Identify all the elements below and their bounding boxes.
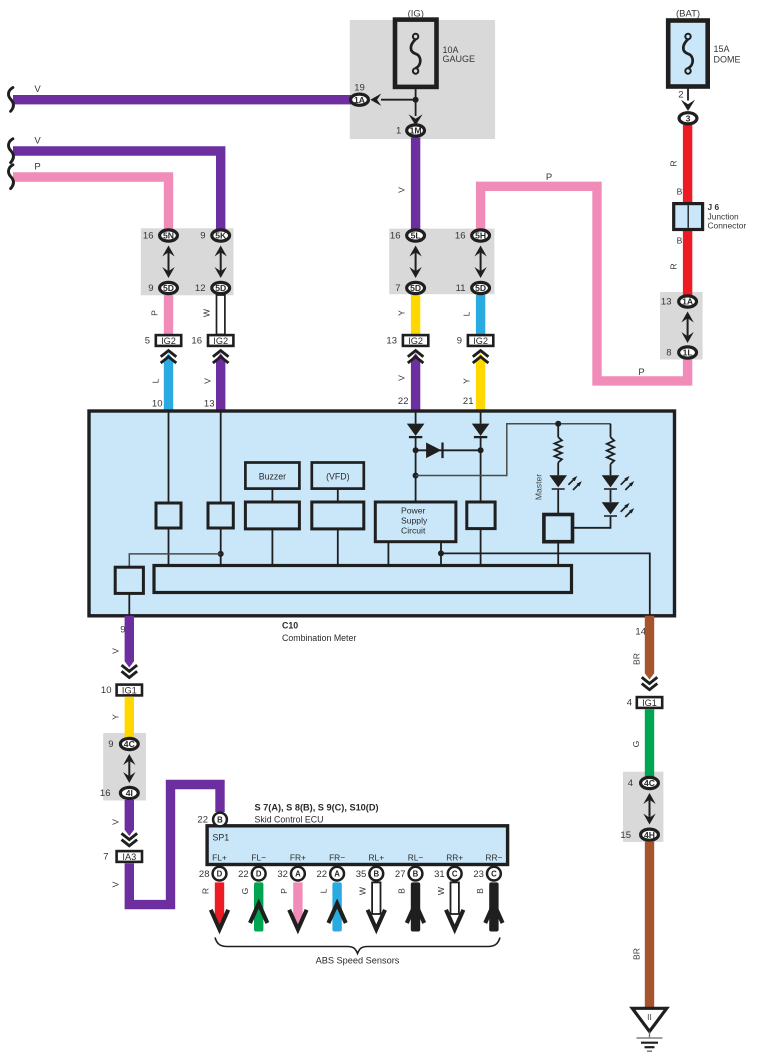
wire B ABS sensor RL− [411, 882, 420, 931]
node junction pin 22 line lower [413, 473, 419, 479]
svg-text:P: P [546, 172, 552, 183]
svg-text:7: 7 [395, 283, 400, 294]
svg-text:C: C [491, 870, 497, 879]
svg-text:22: 22 [398, 396, 409, 407]
connector block 5L/5H to 5D shading [389, 229, 494, 295]
svg-text:A: A [295, 870, 301, 879]
wire resistor to LED left [557, 463, 559, 476]
svg-text:Combination Meter: Combination Meter [282, 633, 356, 643]
connector 4I [120, 787, 138, 798]
arrow chevrons into IG2 pin 13 [408, 351, 424, 357]
ECU SP1 skid control box [207, 826, 508, 865]
svg-text:11: 11 [456, 283, 466, 294]
connector 5H [472, 230, 490, 241]
wire meter pin 21 internal [480, 412, 482, 424]
wire P ABS sensor FR+ [293, 882, 302, 919]
svg-text:35: 35 [356, 869, 367, 880]
svg-text:5: 5 [145, 336, 150, 347]
svg-text:FR+: FR+ [290, 852, 306, 862]
svg-text:W: W [436, 886, 446, 895]
svg-text:Y: Y [397, 310, 407, 316]
svg-text:4H: 4H [644, 830, 655, 840]
wire meter pin 10 internal [168, 412, 170, 503]
svg-text:7: 7 [103, 852, 108, 863]
svg-text:B: B [373, 870, 379, 879]
svg-text:Connector: Connector [708, 221, 747, 231]
svg-text:16: 16 [100, 788, 111, 799]
node junction box13 line [218, 551, 224, 557]
svg-text:IG2: IG2 [161, 336, 176, 346]
wire P connector 5H to 1L [481, 186, 688, 381]
junction connector J6 [674, 204, 703, 230]
node junction PSC output [438, 550, 444, 556]
svg-text:5D: 5D [410, 283, 421, 293]
connector 1A (IG feed) [351, 94, 369, 105]
junction IG1 pin 10 [117, 685, 142, 696]
VFD box [312, 463, 364, 489]
junction IG2 pin 13 [403, 335, 428, 346]
svg-text:R: R [201, 888, 211, 894]
diode meter pin 21 [472, 424, 490, 436]
svg-text:27: 27 [395, 869, 406, 880]
connector block 1A to 1L shading [660, 292, 703, 360]
svg-text:4: 4 [627, 698, 632, 709]
svg-text:SP1: SP1 [213, 833, 230, 843]
svg-text:GAUGE: GAUGE [443, 54, 476, 64]
svg-text:5H: 5H [475, 231, 486, 241]
svg-text:10: 10 [152, 399, 163, 410]
wire L IG2 pin 5 to meter pin 10 [164, 353, 173, 412]
svg-text:G: G [631, 740, 641, 747]
wire W 5D to IG2 pin 16 [217, 295, 225, 335]
node A pin 22 [330, 867, 344, 881]
svg-text:15: 15 [620, 830, 631, 841]
svg-text:V: V [111, 881, 121, 887]
arrow pair 5K to 5D [220, 252, 222, 273]
resistor right (indicator LEDs) [607, 437, 614, 464]
wire P 5D to IG2 pin 5 [164, 295, 173, 335]
svg-text:9: 9 [457, 336, 462, 347]
wire fuse DOME output [687, 87, 689, 101]
svg-text:28: 28 [199, 869, 210, 880]
svg-text:5L: 5L [411, 231, 421, 241]
junction IG2 pin 9 [468, 335, 493, 346]
internal box under pin 10 [156, 503, 181, 528]
svg-text:16: 16 [191, 336, 202, 347]
svg-text:BR: BR [632, 653, 642, 665]
wire cross link to output box [129, 554, 220, 567]
node junction pin 22 line upper [413, 447, 419, 453]
arrow chevrons into IG2 pin 5 [161, 351, 177, 357]
wire fuse output [415, 87, 417, 116]
connector block 5N/5K to 5D shading [141, 228, 234, 295]
wire V horizontal to connector 1A [13, 95, 351, 104]
node B pin 35 [369, 867, 383, 881]
svg-text:12: 12 [195, 283, 206, 294]
svg-text:9: 9 [108, 739, 113, 750]
node B pin 27 [409, 867, 423, 881]
wire LED to Master box [557, 490, 559, 515]
svg-text:RR−: RR− [485, 852, 502, 862]
wire junction to LED resistor rail [416, 424, 611, 476]
svg-text:(IG): (IG) [408, 9, 424, 20]
fuse 10A GAUGE [395, 20, 437, 87]
svg-text:5D: 5D [163, 283, 174, 293]
svg-text:P: P [279, 888, 289, 894]
svg-text:BR: BR [632, 948, 642, 960]
wire V meter pin 9 to IG1 [125, 616, 134, 668]
node junction resistor rail [555, 421, 561, 427]
wire V IG2 pin 16 to meter pin 13 [216, 353, 225, 412]
node C pin 31 [448, 867, 462, 881]
svg-text:23: 23 [473, 869, 484, 880]
svg-text:31: 31 [434, 869, 445, 880]
svg-text:B: B [475, 888, 485, 894]
wire W ABS sensor RR+ [451, 882, 459, 914]
power supply circuit box [375, 502, 456, 542]
wire rail to left resistor [557, 424, 559, 438]
node C pin 23 [487, 867, 501, 881]
svg-text:16: 16 [143, 231, 154, 242]
wire meter pin 22 internal [415, 412, 417, 424]
svg-text:D: D [217, 870, 223, 879]
svg-text:13: 13 [204, 399, 215, 410]
arrow pair 5H to 5D [480, 252, 482, 273]
wire W ABS sensor RL+ [372, 882, 380, 914]
svg-text:IG1: IG1 [642, 698, 657, 708]
svg-text:Supply: Supply [401, 516, 428, 526]
svg-text:C10: C10 [282, 621, 298, 631]
svg-text:P: P [150, 310, 160, 316]
node B pin 22 [213, 813, 227, 827]
svg-text:IG1: IG1 [122, 685, 137, 695]
connector 5L [407, 230, 425, 241]
svg-text:Y: Y [462, 378, 472, 384]
Master driver box [544, 515, 573, 542]
svg-text:3: 3 [686, 113, 691, 123]
svg-text:13: 13 [386, 336, 397, 347]
connector 5D right [212, 282, 230, 293]
output box pin 9 [115, 567, 143, 593]
fuse 15A DOME [668, 21, 708, 87]
svg-text:V: V [34, 136, 41, 147]
wire box13 to bus [220, 528, 222, 566]
connector 5D left [160, 282, 178, 293]
svg-text:IG2: IG2 [408, 336, 423, 346]
svg-text:Skid Control ECU: Skid Control ECU [255, 815, 324, 825]
svg-text:B: B [217, 815, 223, 824]
svg-text:Master: Master [534, 474, 544, 500]
wire R battery fuse to 1A [683, 125, 692, 296]
svg-text:RL+: RL+ [368, 852, 384, 862]
svg-text:1M: 1M [410, 126, 422, 136]
svg-text:1A: 1A [682, 297, 693, 307]
svg-text:ABS Speed Sensors: ABS Speed Sensors [316, 956, 400, 966]
junction IA3 pin 7 [117, 851, 142, 862]
svg-text:W: W [202, 308, 212, 317]
svg-text:4C: 4C [644, 778, 655, 788]
svg-text:Buzzer: Buzzer [259, 471, 286, 481]
svg-text:19: 19 [354, 83, 365, 94]
connector 5N [160, 230, 178, 241]
wire VFD to driver box [337, 489, 339, 502]
svg-text:D: D [256, 870, 262, 879]
connector 1M [407, 125, 425, 136]
svg-text:V: V [111, 819, 121, 825]
wire V 4I to IA3 [125, 800, 134, 836]
break symbol wire V2 [8, 139, 13, 163]
svg-text:L: L [462, 311, 472, 316]
svg-text:13: 13 [661, 297, 672, 308]
svg-text:15A: 15A [714, 44, 730, 54]
svg-text:5D: 5D [215, 283, 226, 293]
arrow pair 1A to 1L [687, 318, 689, 338]
svg-text:16: 16 [390, 231, 401, 242]
svg-text:G: G [240, 887, 250, 894]
wire buzzer to driver box [271, 489, 273, 502]
svg-text:5D: 5D [475, 283, 486, 293]
svg-text:C: C [452, 870, 458, 879]
IG fuse block shading [350, 20, 495, 139]
svg-text:10: 10 [101, 685, 112, 696]
svg-text:(BAT): (BAT) [676, 9, 700, 20]
svg-text:V: V [397, 375, 407, 381]
svg-text:IG2: IG2 [473, 336, 488, 346]
svg-text:9: 9 [148, 283, 153, 294]
node junction under fuse [413, 97, 419, 103]
svg-text:1A: 1A [354, 95, 365, 105]
wire B ABS sensor RR− [489, 882, 498, 931]
bus bar [154, 566, 572, 593]
svg-text:P: P [34, 162, 40, 173]
buzzer driver box [245, 502, 299, 529]
svg-text:Y: Y [111, 714, 121, 720]
wire Y IG1 to 4C [125, 697, 134, 739]
ground II [632, 1008, 666, 1031]
wire box10 to bus [168, 528, 170, 566]
svg-text:B: B [677, 236, 683, 246]
svg-text:21: 21 [463, 396, 474, 407]
svg-text:9: 9 [200, 231, 205, 242]
wire VFD driver to bus [337, 529, 339, 566]
wire P horizontal to connector 5N [13, 177, 169, 230]
brace ABS speed sensors [215, 938, 500, 954]
arrow into connector 1M [409, 114, 423, 125]
svg-text:V: V [203, 378, 213, 384]
node 3 [679, 113, 697, 124]
internal box under pin 21 [467, 502, 495, 529]
wire L 5D to IG2 pin 9 [476, 295, 485, 335]
connector 4C lower left [120, 738, 138, 749]
svg-text:V: V [397, 187, 407, 193]
connector 5K [212, 230, 230, 241]
svg-text:2: 2 [678, 90, 683, 101]
wire diode 21 to internal box [480, 437, 482, 502]
svg-text:II: II [647, 1012, 652, 1022]
arrow chevrons into IG2 pin 16 [213, 351, 229, 357]
wire between right LEDs [610, 490, 612, 503]
connector 4C lower right [641, 777, 659, 788]
connector 1A battery side [679, 296, 697, 307]
wire G ABS sensor FL− [254, 882, 263, 931]
arrow chevrons into IA3 [122, 833, 138, 839]
svg-text:14: 14 [635, 627, 646, 638]
svg-text:V: V [111, 648, 121, 654]
junction IG1 pin 4 [637, 697, 662, 708]
VFD driver box [312, 502, 364, 529]
svg-text:FR−: FR− [329, 852, 345, 862]
svg-text:L: L [318, 888, 328, 893]
connector 5D center [407, 282, 425, 293]
arrow pair 4C to 4H [649, 799, 651, 819]
wire V connector 1M to 5L [411, 137, 420, 230]
svg-text:22: 22 [197, 815, 208, 826]
wire output box to pin 9 [128, 593, 130, 615]
connector 5D right-mid [472, 282, 490, 293]
svg-text:4C: 4C [124, 739, 135, 749]
node junction pin 21 line [478, 447, 484, 453]
diode between pin 22 and pin 21 lines [416, 449, 481, 451]
wire resistor to LED right [610, 464, 612, 475]
svg-text:(VFD): (VFD) [326, 471, 350, 481]
svg-text:Circuit: Circuit [401, 526, 426, 536]
svg-text:22: 22 [238, 869, 249, 880]
arrow chevrons into IG1 pin 4 [642, 677, 658, 683]
svg-text:FL+: FL+ [212, 852, 227, 862]
svg-text:Power: Power [401, 506, 425, 516]
svg-text:B: B [397, 888, 407, 894]
wire G IG1 to 4C [645, 709, 654, 778]
connector block 4C to 4I shading [103, 733, 146, 801]
arrow pair 5N to 5D [168, 252, 170, 273]
LED indicator upper [602, 475, 620, 487]
svg-text:RL−: RL− [408, 852, 424, 862]
wire Y IG2 pin 9 to meter pin 21 [476, 353, 485, 412]
arrow chevrons into IG2 pin 9 [473, 351, 489, 357]
wire V horizontal to connector 5K [13, 151, 221, 230]
wire junction to 1A [381, 99, 416, 101]
break symbol wire V1 [8, 88, 13, 112]
wire box21 to bus [480, 529, 482, 566]
svg-text:16: 16 [455, 231, 466, 242]
ECU C10 combination meter box [89, 411, 675, 616]
wire V IA3 to skid control ECU [129, 785, 220, 905]
connector 1L [679, 347, 697, 358]
svg-text:1L: 1L [683, 348, 693, 358]
wire BR meter pin 14 to IG1 [645, 616, 654, 680]
arrow pair 4C to 4I [128, 760, 130, 777]
wire R ABS sensor FL+ [215, 882, 224, 919]
wire BR 4H to ground [645, 842, 654, 1008]
LED indicator lower [602, 502, 620, 514]
wire L ABS sensor FR− [332, 882, 341, 931]
wire PSC to bus left [387, 542, 389, 566]
node D pin 28 [213, 867, 227, 881]
node D pin 22 [252, 867, 266, 881]
svg-text:B: B [677, 187, 683, 197]
svg-text:IA3: IA3 [122, 852, 136, 862]
junction IG2 pin 16 [208, 335, 233, 346]
svg-text:4I: 4I [126, 788, 133, 798]
svg-text:RR+: RR+ [446, 852, 463, 862]
connector 4H [641, 829, 659, 840]
wire buzzer driver to bus [271, 529, 273, 566]
svg-text:1: 1 [396, 126, 401, 137]
connector block 4C to 4H shading [623, 772, 663, 842]
wire Master box to bus [557, 542, 559, 566]
svg-text:B: B [413, 870, 419, 879]
diode meter pin 22 [407, 424, 425, 436]
svg-text:IG2: IG2 [213, 336, 228, 346]
arrow into connector 1A [370, 94, 381, 106]
resistor left (Master LED) [555, 437, 562, 462]
junction IG2 pin 5 [156, 335, 181, 346]
wire right LED chain to Master box [573, 517, 611, 528]
svg-text:R: R [669, 160, 679, 166]
svg-text:L: L [151, 378, 161, 383]
internal box under pin 13 [208, 503, 233, 528]
wire PSC junction to pin 14 [441, 553, 650, 615]
node A pin 32 [291, 867, 305, 881]
svg-text:S 7(A), S 8(B), S 9(C), S10(D): S 7(A), S 8(B), S 9(C), S10(D) [255, 803, 379, 813]
wire rail to right resistor [610, 424, 612, 438]
wire V IG2 pin 13 to meter pin 22 [411, 353, 420, 412]
LED Master [549, 475, 567, 487]
svg-text:W: W [358, 886, 368, 895]
svg-text:A: A [334, 870, 340, 879]
wire PSC to bus right [440, 542, 442, 566]
svg-text:R: R [669, 263, 679, 269]
buzzer box [245, 463, 299, 489]
arrow pair 5L to 5D [415, 252, 417, 273]
svg-text:4: 4 [628, 778, 633, 789]
arrow into node 3 [681, 100, 695, 111]
wire meter pin 13 internal [220, 412, 222, 503]
svg-text:5N: 5N [163, 231, 174, 241]
svg-text:FL−: FL− [251, 852, 266, 862]
wire Y 5D to IG2 pin 13 [411, 295, 420, 335]
arrow chevrons into IG1 pin 10 [122, 665, 138, 671]
svg-text:5K: 5K [215, 231, 227, 241]
break symbol wire P [8, 165, 13, 189]
wire diode to power supply circuit [415, 437, 417, 502]
svg-text:22: 22 [317, 869, 328, 880]
svg-text:P: P [638, 367, 644, 378]
svg-text:32: 32 [277, 869, 288, 880]
svg-text:8: 8 [666, 348, 671, 359]
svg-text:V: V [34, 84, 41, 95]
svg-text:DOME: DOME [714, 55, 741, 65]
